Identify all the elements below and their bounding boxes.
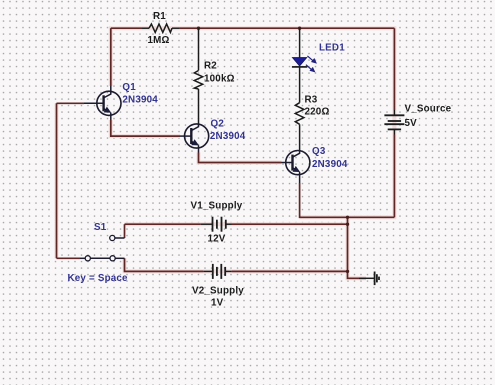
transistor Q3	[282, 151, 310, 184]
wire: Q1 collector riser	[110, 28, 112, 86]
svg-text:1MΩ: 1MΩ	[148, 35, 170, 46]
battery V_Source	[384, 110, 404, 135]
svg-text:Q1: Q1	[122, 82, 136, 93]
wire: Q1 base and left column	[57, 103, 85, 258]
resistor R2	[194, 28, 202, 124]
wire: S1 row left	[57, 257, 81, 259]
wire: Q1 emitter to Q2 base	[111, 120, 180, 136]
svg-text:1V: 1V	[211, 298, 224, 309]
battery V2_Supply	[203, 264, 231, 279]
wire: top rail left of R1	[57, 28, 395, 278]
wire: S1 to V2 row	[125, 258, 348, 271]
svg-text:12V: 12V	[208, 234, 226, 245]
switch S1	[80, 235, 125, 261]
node bottom tap	[346, 216, 349, 219]
LED LED1	[292, 28, 317, 103]
svg-text:2N3904: 2N3904	[312, 159, 348, 170]
node V1 tap	[346, 223, 349, 226]
svg-text:S1: S1	[94, 222, 107, 233]
battery V1_Supply	[201, 217, 232, 232]
wire: top rail right of R1	[179, 27, 394, 29]
wire halos	[57, 28, 395, 278]
wire: S1 throw riser	[124, 224, 126, 238]
svg-text:V1_Supply: V1_Supply	[191, 201, 243, 212]
wire: tap column to ground	[348, 217, 367, 278]
node LED top	[298, 27, 301, 30]
wire: right rail	[393, 28, 395, 217]
resistor R1	[142, 24, 179, 32]
svg-text:R3: R3	[305, 95, 318, 106]
svg-text:Key = Space: Key = Space	[68, 273, 129, 284]
svg-text:Q2: Q2	[211, 119, 225, 130]
svg-text:5V: 5V	[405, 118, 418, 129]
resistor R3	[295, 103, 304, 151]
svg-text:R1: R1	[153, 11, 166, 22]
svg-text:220Ω: 220Ω	[305, 107, 330, 118]
svg-text:2N3904: 2N3904	[210, 131, 246, 142]
wire: Q2 emitter to Q3 base	[199, 153, 282, 163]
wire: V1 row	[125, 223, 348, 225]
svg-text:Q3: Q3	[312, 146, 326, 157]
svg-text:2N3904: 2N3904	[122, 95, 158, 106]
transistor Q1	[84, 86, 121, 120]
transistor Q2	[180, 124, 209, 153]
wire: bottom rail	[300, 183, 395, 217]
svg-text:V2_Supply: V2_Supply	[192, 286, 244, 297]
svg-text:100kΩ: 100kΩ	[204, 74, 235, 85]
junction dots	[197, 27, 349, 274]
svg-text:LED1: LED1	[319, 43, 345, 54]
ground	[359, 272, 379, 286]
svg-text:R2: R2	[204, 61, 217, 72]
node V2 tap	[346, 270, 349, 273]
node R2 top	[197, 27, 200, 30]
svg-text:V_Source: V_Source	[405, 104, 452, 115]
